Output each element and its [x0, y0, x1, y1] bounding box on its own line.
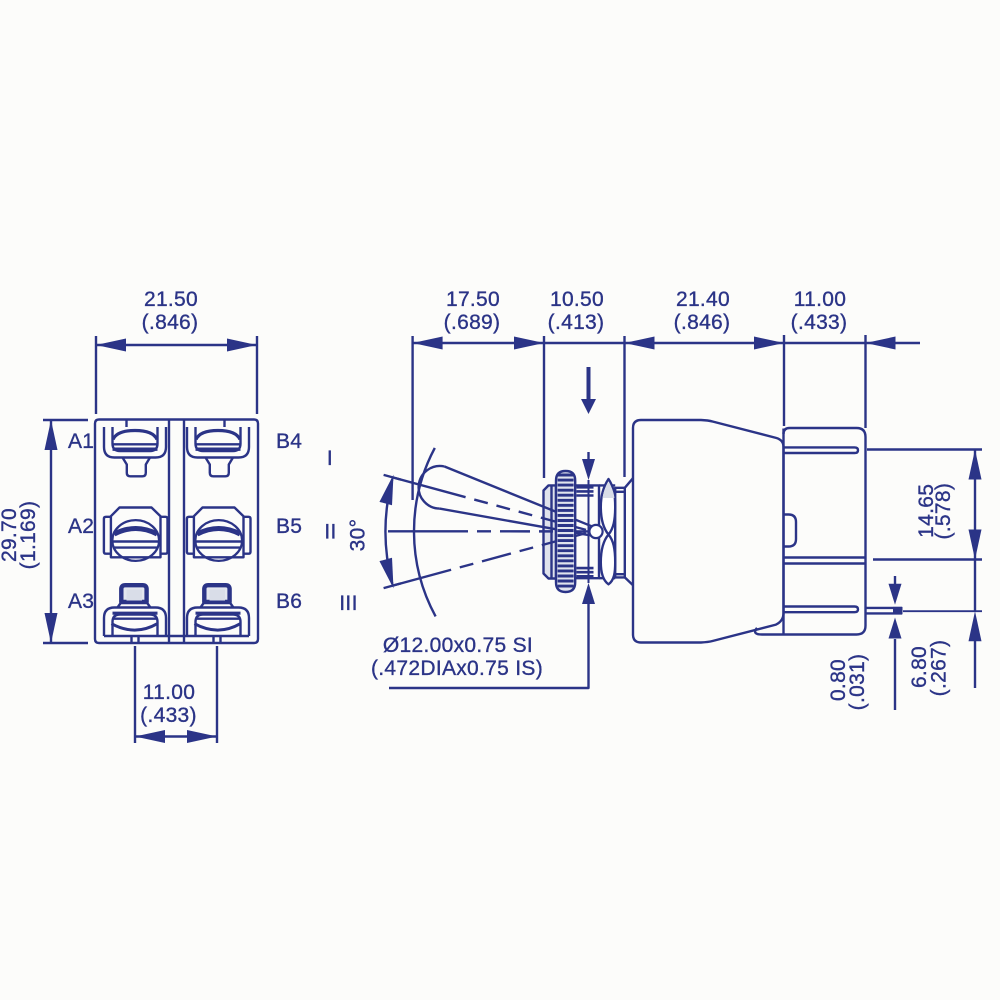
- terminal slot bottom (A3 row): [784, 607, 859, 613]
- dim 14.65 dimension line: [974, 450, 976, 560]
- keyway bump on rear housing: [784, 515, 797, 547]
- bottom notch under B6: [212, 636, 214, 643]
- dim 30deg lower arrow: [379, 558, 399, 590]
- position II centerline: [388, 530, 589, 533]
- dim 21.50 right arrow: [227, 339, 257, 352]
- terminal A1 outer bracket: [104, 427, 166, 458]
- dim chain extension line at housing rear: [864, 335, 866, 428]
- seal washer plate: [599, 485, 615, 578]
- rear housing left edge: [782, 429, 784, 635]
- dim 11.00R dimension line with outside tail: [784, 342, 920, 344]
- terminal extension line: [903, 610, 982, 612]
- knurled locking ring: [556, 471, 575, 592]
- svg-text:10.50: 10.50: [550, 288, 604, 311]
- center divider wall left line: [168, 421, 170, 643]
- terminal B5 right ear: [244, 517, 251, 554]
- terminal B6 clamp plate lines: [196, 612, 241, 615]
- terminal A1 solder tab: [123, 458, 151, 477]
- terminal A2 screw slot: [113, 540, 158, 542]
- hex nut face: [544, 485, 557, 578]
- terminal A1 screw dome: [113, 431, 157, 440]
- terminal A2 right ear: [161, 517, 168, 554]
- dim 29.70 bottom arrow: [45, 613, 58, 643]
- upper seal lens shading: [603, 482, 615, 498]
- terminal A3 inner bracket: [113, 615, 158, 637]
- top edge tick left: [125, 420, 127, 427]
- actuation direction arrow: [587, 367, 591, 400]
- dim 11.00L extension line right: [216, 646, 218, 743]
- top edge tick right: [223, 420, 225, 427]
- dim 29.70 extension line top: [43, 419, 88, 421]
- svg-text:B4: B4: [276, 430, 302, 453]
- front housing outline: [633, 420, 784, 643]
- position III tick: [384, 583, 401, 588]
- dim 0.80 upper arrow: [889, 584, 902, 605]
- bottom inner band line: [104, 635, 249, 637]
- dim 21.40 right arrow: [754, 337, 784, 350]
- spacer inner lines: [615, 491, 625, 493]
- svg-text:I: I: [327, 447, 333, 470]
- svg-text:A3: A3: [68, 590, 94, 613]
- terminal slot top (A1 row): [784, 447, 859, 453]
- dim 21.40 dimension line: [625, 342, 785, 344]
- svg-text:(.267): (.267): [928, 640, 951, 697]
- dim 21.50 extension line left: [95, 336, 97, 414]
- terminal A3 tab flare: [118, 602, 151, 608]
- thread crest marks top: [577, 486, 594, 489]
- position III centerline: [393, 533, 586, 585]
- dim 0.80 upper shaft: [894, 576, 896, 584]
- dim 14.65 bottom arrow: [969, 530, 982, 560]
- terminal A3 clamp plate lines: [113, 612, 158, 615]
- svg-text:30°: 30°: [347, 519, 370, 552]
- svg-text:(.846): (.846): [142, 311, 199, 334]
- svg-text:II: II: [324, 521, 336, 544]
- terminal B4 clamp plate lines: [196, 443, 241, 445]
- knurl ribs: [558, 474, 574, 477]
- terminal B6 quick-connect tab: [204, 585, 229, 602]
- terminal A2 clamp body: [111, 508, 161, 558]
- dim 11.00L dimension line: [135, 735, 217, 737]
- lever handle tip cap: [419, 466, 445, 509]
- dim 21.50 left arrow: [96, 339, 126, 352]
- transition to housing bottom: [625, 577, 633, 585]
- dim 11.00L left arrow: [135, 730, 165, 743]
- svg-text:21.50: 21.50: [144, 288, 198, 311]
- terminal A2 screw head circle: [112, 520, 159, 561]
- thread crest marks bottom: [577, 567, 594, 570]
- terminal B5 screw head shading arc: [197, 529, 240, 535]
- pivot ball: [589, 525, 602, 538]
- dim 6.80 dimension line: [974, 560, 976, 612]
- dim 29.70 dimension line: [50, 420, 52, 643]
- dim 14.65 extension line top: [867, 448, 982, 450]
- dim 30deg arc: [386, 479, 393, 584]
- svg-text:III: III: [339, 592, 357, 615]
- svg-text:(.689): (.689): [444, 311, 501, 334]
- terminal B5 screw head circle: [195, 520, 242, 561]
- rear housing outline: [755, 428, 865, 635]
- terminal A3 quick-connect tab: [121, 585, 146, 602]
- terminal B6 tab flare: [201, 602, 234, 608]
- dim 14.65 top arrow: [969, 450, 982, 480]
- terminal B4 inner bracket: [196, 427, 241, 451]
- terminal A2 left ear: [104, 517, 111, 554]
- dia 12 dimension line through bushing: [588, 480, 590, 583]
- position I tick: [384, 475, 401, 480]
- terminal A1 inner bracket: [113, 427, 158, 451]
- dim chain extension line at housing step: [783, 335, 785, 426]
- dim 6.80 bottom arrow: [969, 611, 982, 641]
- dim 14.65 extension line bottom: [873, 558, 982, 560]
- dia 12 top arrow: [582, 459, 595, 480]
- svg-text:(.433): (.433): [140, 704, 197, 727]
- thread section outline: [556, 485, 599, 578]
- dim 21.50 dimension line: [96, 344, 257, 346]
- dim 0.80 lower shaft: [894, 639, 896, 710]
- svg-text:17.50: 17.50: [446, 288, 500, 311]
- protruding terminal tab: [866, 607, 903, 609]
- terminal slot middle (A2 row): [784, 556, 866, 558]
- svg-text:A2: A2: [68, 515, 94, 538]
- svg-text:21.40: 21.40: [676, 288, 730, 311]
- dim 0.80 lower arrow: [889, 618, 902, 639]
- terminal A2 screw head shading arc: [114, 529, 157, 535]
- dim 21.40 left arrow: [625, 337, 655, 350]
- svg-text:11.00: 11.00: [794, 288, 847, 311]
- terminal B4 solder tab: [206, 458, 234, 477]
- hex nut inner edge: [550, 485, 552, 578]
- dim 21.50 extension line right: [256, 336, 258, 414]
- dim 11.00L right arrow: [187, 730, 217, 743]
- terminal B5 clamp body: [194, 508, 244, 558]
- svg-text:B5: B5: [276, 515, 302, 538]
- dim 17.50 dimension line: [413, 342, 544, 344]
- terminal A3 screw dome: [112, 624, 158, 630]
- svg-text:Ø12.00x0.75 SI: Ø12.00x0.75 SI: [383, 634, 533, 657]
- dim 29.70 top arrow: [45, 420, 58, 450]
- terminal B5 screw slot: [196, 540, 241, 542]
- svg-text:B6: B6: [276, 590, 302, 613]
- terminal B6 inner bracket: [196, 615, 241, 637]
- dim chain extension line at nut face: [543, 336, 545, 478]
- dim 17.50 right arrow: [514, 337, 544, 350]
- bottom notch under A3: [130, 636, 132, 643]
- dim 6.80 tail: [974, 639, 976, 688]
- svg-text:(.578): (.578): [932, 483, 955, 540]
- terminal A3 outer bracket: [104, 608, 166, 637]
- dim 17.50 left arrow: [413, 337, 443, 350]
- lever swing arc: [414, 448, 436, 617]
- position I centerline: [393, 478, 586, 530]
- dim 29.70 extension line bottom: [43, 642, 88, 644]
- dim 11.00R outside arrow: [866, 337, 896, 350]
- dia 12 bottom arrow: [582, 583, 595, 604]
- spacer plate: [615, 488, 625, 578]
- dim chain extension line at lever tip plane: [411, 336, 413, 500]
- center divider wall right line: [183, 421, 185, 643]
- dim chain extension line at bushing rear: [623, 336, 625, 477]
- dim 30deg upper arrow: [379, 473, 399, 505]
- terminal B6 tab inner shading: [210, 590, 226, 601]
- svg-text:11.00: 11.00: [143, 681, 196, 704]
- switch body rear-view outline: [95, 420, 258, 644]
- upper seal lens: [601, 479, 615, 535]
- terminal A1 clamp plate lines: [113, 443, 158, 445]
- svg-text:(.413): (.413): [548, 311, 605, 334]
- terminal B6 outer bracket: [187, 608, 249, 637]
- terminal A3 tab inner shading: [127, 590, 143, 601]
- terminal B4 outer bracket: [187, 427, 249, 458]
- dia 12 dimension line top segment: [587, 452, 589, 461]
- lower seal lens: [601, 535, 615, 585]
- lever handle lower edge: [440, 509, 590, 536]
- dim 10.50 dimension line: [544, 342, 625, 344]
- svg-text:A1: A1: [68, 430, 94, 453]
- terminal B5 left ear: [187, 517, 194, 554]
- svg-text:(.472DIAx0.75 IS): (.472DIAx0.75 IS): [371, 657, 543, 680]
- terminal B4 screw dome: [196, 431, 240, 440]
- terminal B6 screw dome: [195, 624, 241, 630]
- dim 11.00L extension line left: [134, 646, 136, 743]
- svg-text:(.031): (.031): [846, 654, 869, 711]
- svg-text:(1.169): (1.169): [17, 501, 40, 570]
- transition to housing top: [625, 478, 633, 488]
- svg-text:(.433): (.433): [791, 311, 848, 334]
- lever handle upper edge: [445, 467, 592, 527]
- dia 12 leader line: [389, 604, 589, 688]
- svg-text:(.846): (.846): [674, 311, 731, 334]
